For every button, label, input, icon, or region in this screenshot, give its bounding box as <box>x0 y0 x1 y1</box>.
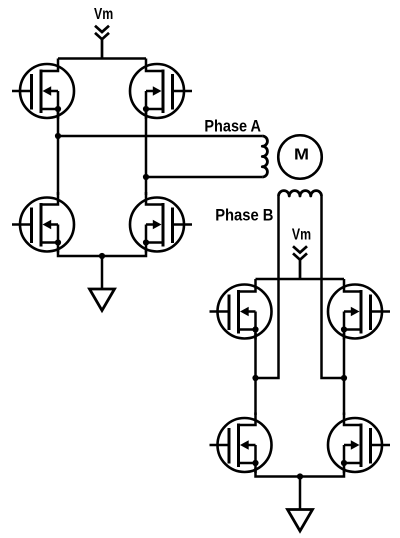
transistor Q5 (bridge 2 high side left) <box>210 279 272 340</box>
node bridge 2 left output junction <box>252 375 258 381</box>
svg-text:Phase A: Phase A <box>204 118 261 136</box>
wire bottom rail bridge 2 <box>256 468 345 477</box>
transistor Q3 (bridge 1 low side left) <box>12 192 74 253</box>
transistor Q8 (bridge 2 low side right) <box>328 413 390 474</box>
inductor winding Phase B <box>279 191 322 196</box>
wire right half-bridge 2 output vertical <box>343 333 346 415</box>
transistor Q2 (bridge 1 high side right) <box>130 59 192 120</box>
motor M <box>278 135 322 179</box>
svg-text:Phase B: Phase B <box>215 207 274 225</box>
node Phase A junction <box>55 133 61 139</box>
wire top rail bridge 2 <box>256 278 345 281</box>
ground (bridge 2) <box>288 477 313 532</box>
wire left half-bridge 2 output vertical <box>254 333 257 415</box>
svg-text:M: M <box>294 147 309 164</box>
wire winding Phase B left lead down <box>256 196 279 378</box>
node ground junction bridge 2 <box>297 473 303 479</box>
power symbol Vm (bridge 2) <box>293 246 307 279</box>
node bridge 2 right output junction <box>341 375 347 381</box>
wire Phase A <box>58 135 262 138</box>
transistor Q7 (bridge 2 low side left) <box>210 413 272 474</box>
inductor winding Phase A <box>262 136 267 177</box>
node ground junction bridge 1 <box>99 253 105 259</box>
transistor Q6 (bridge 2 high side right) <box>328 279 390 340</box>
wire right half-bridge 1 output vertical <box>145 112 148 195</box>
ground (bridge 1) <box>90 256 115 311</box>
power symbol Vm (bridge 1) <box>95 26 109 59</box>
svg-text:Vm: Vm <box>292 226 311 243</box>
transistor Q4 (bridge 1 low side right) <box>130 192 192 253</box>
wire bottom rail bridge 1 <box>58 248 146 256</box>
wire top rail bridge 1 <box>58 57 146 60</box>
wire bridge 1 right output to winding <box>146 176 262 179</box>
node bridge 1 right output junction <box>143 174 149 180</box>
transistor Q1 (bridge 1 high side left) <box>12 59 74 120</box>
svg-text:Vm: Vm <box>94 6 113 23</box>
wire left half-bridge 1 output vertical <box>57 112 60 195</box>
wire winding Phase B right lead down <box>322 196 345 378</box>
